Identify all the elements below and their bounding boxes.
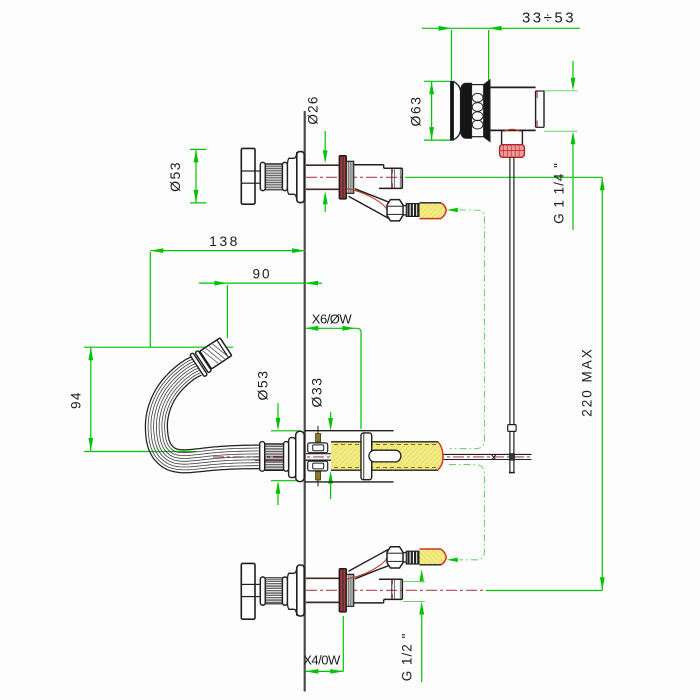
- svg-text:X4/0W: X4/0W: [303, 653, 341, 668]
- svg-text:Ø63: Ø63: [408, 96, 424, 127]
- svg-text:220 MAX: 220 MAX: [580, 347, 595, 417]
- svg-text:Ø53: Ø53: [255, 370, 271, 401]
- svg-text:94: 94: [69, 391, 84, 409]
- svg-text:Ø33: Ø33: [309, 377, 325, 408]
- svg-text:90: 90: [252, 267, 271, 282]
- svg-text:X6/ØW: X6/ØW: [312, 312, 353, 327]
- svg-text:G 1 1/4 ": G 1 1/4 ": [552, 162, 567, 224]
- svg-text:G 1/2 ": G 1/2 ": [400, 633, 415, 682]
- svg-text:33÷53: 33÷53: [522, 10, 576, 27]
- svg-text:138: 138: [209, 233, 240, 249]
- svg-text:Ø53: Ø53: [167, 161, 183, 192]
- svg-text:Ø26: Ø26: [305, 95, 320, 124]
